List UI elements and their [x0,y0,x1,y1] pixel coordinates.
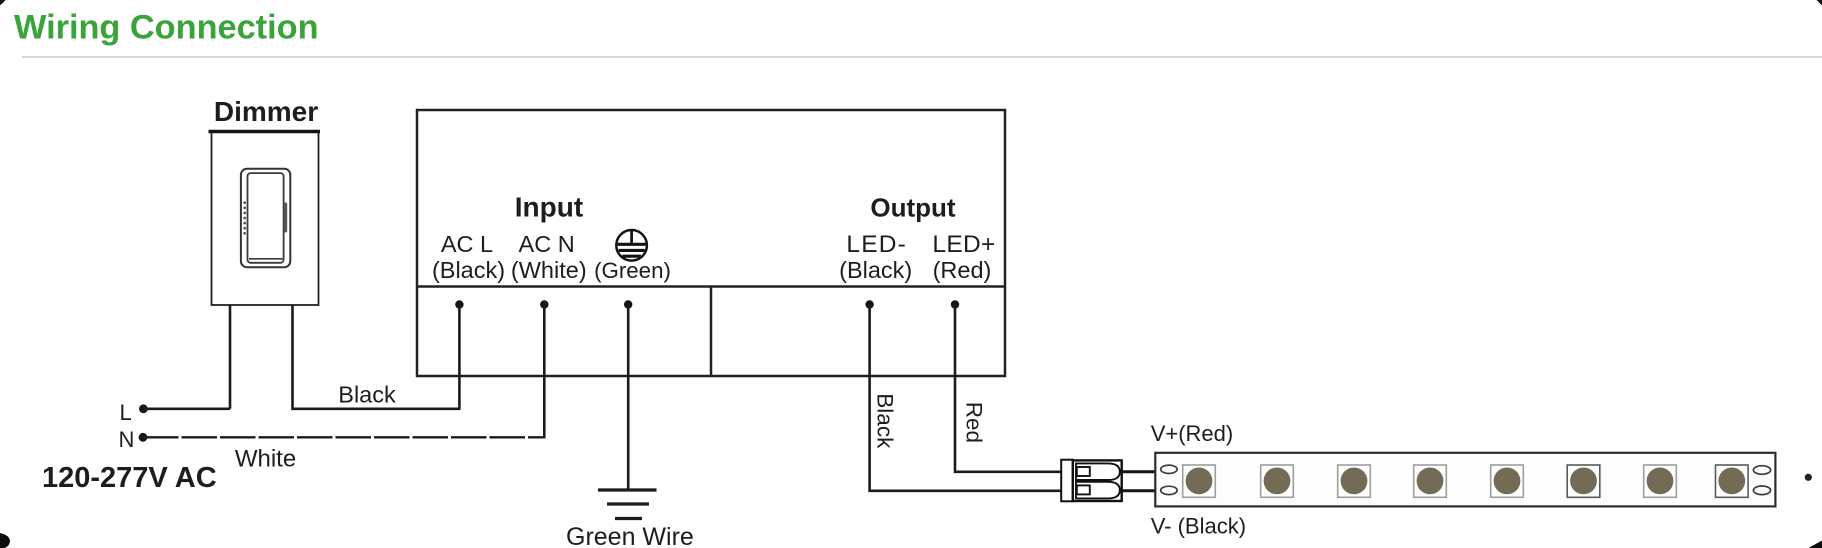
svg-text:Red: Red [962,402,987,443]
svg-text:120-277V AC: 120-277V AC [42,462,217,494]
svg-text:Black: Black [338,381,396,407]
svg-text:(White): (White) [511,257,587,283]
svg-text:LED+: LED+ [932,231,995,258]
svg-text:(Red): (Red) [933,257,992,283]
svg-text:Green Wire: Green Wire [566,523,694,548]
svg-text:Input: Input [515,191,583,222]
svg-text:AC N: AC N [519,231,575,257]
svg-text:Output: Output [870,192,956,222]
svg-text:Black: Black [873,393,898,449]
svg-text:White: White [235,445,296,472]
svg-text:LED-: LED- [846,231,907,258]
svg-text:N: N [119,427,135,452]
svg-text:(Black): (Black) [432,257,505,283]
svg-text:Wiring Connection: Wiring Connection [14,9,319,47]
svg-text:V+(Red): V+(Red) [1151,421,1234,446]
svg-text:AC L: AC L [441,231,493,257]
svg-text:(Black): (Black) [839,257,912,283]
svg-text:Dimmer: Dimmer [214,96,318,127]
svg-text:L: L [120,400,132,425]
svg-text:V- (Black): V- (Black) [1151,514,1246,539]
